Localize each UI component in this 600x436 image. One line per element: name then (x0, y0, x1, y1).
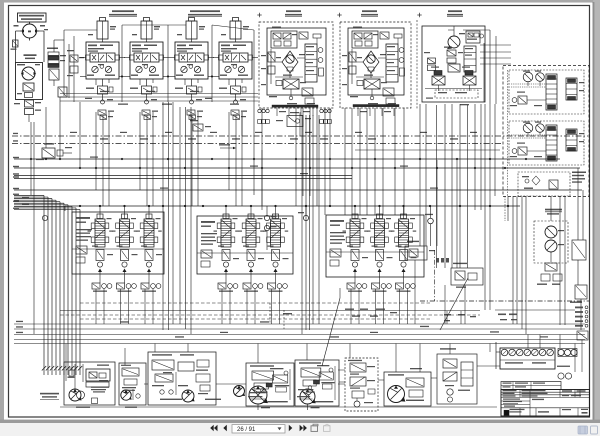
gauge trio (557, 349, 577, 380)
winch manifold 1 (509, 70, 584, 114)
title block (501, 390, 590, 417)
block header bus (65, 205, 520, 211)
oil cooler group (534, 209, 568, 285)
right assembly outer box (503, 66, 589, 197)
first page button (210, 425, 217, 431)
page number field (232, 425, 285, 433)
last page button (300, 425, 307, 431)
label right upper (572, 172, 586, 183)
block3 pilot valves (347, 272, 415, 324)
revision table (501, 382, 561, 390)
valve block 1 frame (72, 212, 164, 274)
connector labels right (345, 306, 588, 327)
valve stack bottom center (338, 358, 378, 411)
main bus lines (13, 157, 582, 191)
vertical riser wires (30, 97, 565, 334)
block2 pilot valves (218, 272, 287, 324)
prev view icon (311, 424, 318, 431)
datum marks (257, 13, 421, 17)
pump unit 1P1 (64, 362, 115, 408)
center pump group (148, 352, 245, 405)
slew drive cluster (417, 20, 485, 110)
check valve left (11, 40, 19, 50)
bus junction valve (36, 143, 72, 160)
label Hubwerk 2 (361, 10, 378, 16)
rotary joint swivel (14, 22, 49, 41)
window right edge (592, 0, 600, 423)
block2 section 2 (239, 206, 264, 272)
misc wires (242, 70, 575, 372)
outrigger station 3 (169, 18, 214, 116)
block2 section 1 (214, 206, 239, 272)
bottom interconnect wires (60, 335, 560, 408)
gauge right of block3 (425, 206, 433, 246)
prev page button (223, 425, 227, 431)
right boundary dash-dot (420, 250, 589, 301)
outrigger station 2 (124, 18, 169, 116)
window left edge (0, 0, 4, 423)
inter-block gauges (42, 206, 308, 250)
hoist 1 cluster (259, 22, 333, 116)
aux elements left of stations (64, 30, 97, 102)
wires to right assembly (463, 30, 511, 104)
toolbar (0, 423, 600, 436)
right column elements (570, 168, 587, 330)
station lower wires (60, 91, 258, 105)
left riser bundle (13, 194, 82, 375)
hoist drop coils (258, 109, 332, 126)
right edge valve (577, 331, 588, 372)
wire (16, 31, 21, 63)
pump unit 2P2 (295, 360, 339, 410)
window icons right (578, 426, 588, 434)
aux block (518, 172, 570, 196)
block2 section 3 (263, 206, 288, 272)
window top edge (0, 0, 600, 3)
block1 section 2 (112, 206, 137, 272)
label Drehkranz (2.W) (18, 13, 47, 22)
label Drehwerk (24, 54, 37, 59)
valve group bottom right (437, 348, 477, 404)
label Hubwerk 1 (285, 10, 302, 16)
hoist terminal bars (272, 105, 399, 108)
valve block 3 frame (326, 215, 424, 277)
flow arrow (219, 144, 236, 149)
block3 section 3 (391, 206, 416, 272)
next page button (289, 425, 293, 431)
block3 section 1 (343, 206, 368, 272)
pump unit 1P2 (119, 363, 146, 408)
station interconnect wires (80, 25, 254, 102)
block1 pilot valves (92, 272, 161, 324)
gauge manifold (496, 342, 555, 369)
svg-text:26 / 91: 26 / 91 (237, 427, 256, 433)
swing valve lower (14, 100, 41, 122)
pump unit right (384, 368, 431, 406)
outrigger station 1 (80, 18, 125, 116)
filter stack (47, 40, 67, 97)
chassis boundary dash-dot lines (12, 132, 588, 144)
label 4x Abstutzung (109, 10, 137, 16)
valve block 2 frame (197, 216, 293, 274)
mid valve A (405, 241, 435, 260)
small valve mid (190, 120, 211, 131)
winch manifold 2 (509, 121, 584, 165)
pump unit 2P1 (246, 363, 294, 410)
outrigger station 4 (213, 18, 258, 116)
bottom bus lines (14, 303, 585, 344)
block3 section 2 (367, 206, 392, 272)
label Drehdurchfuhrung (40, 393, 59, 400)
mid valve B (451, 263, 483, 288)
wire (39, 31, 44, 62)
block1 section 3 (137, 206, 162, 272)
label Drehwerk (447, 10, 463, 16)
hoist 2 cluster (340, 22, 411, 116)
block1 section 1 (88, 206, 113, 272)
swing motor block (16, 63, 43, 100)
page bottom shadow (0, 420, 600, 424)
label 4x Abstutzung 2W (188, 10, 222, 16)
next view icon (324, 424, 331, 431)
